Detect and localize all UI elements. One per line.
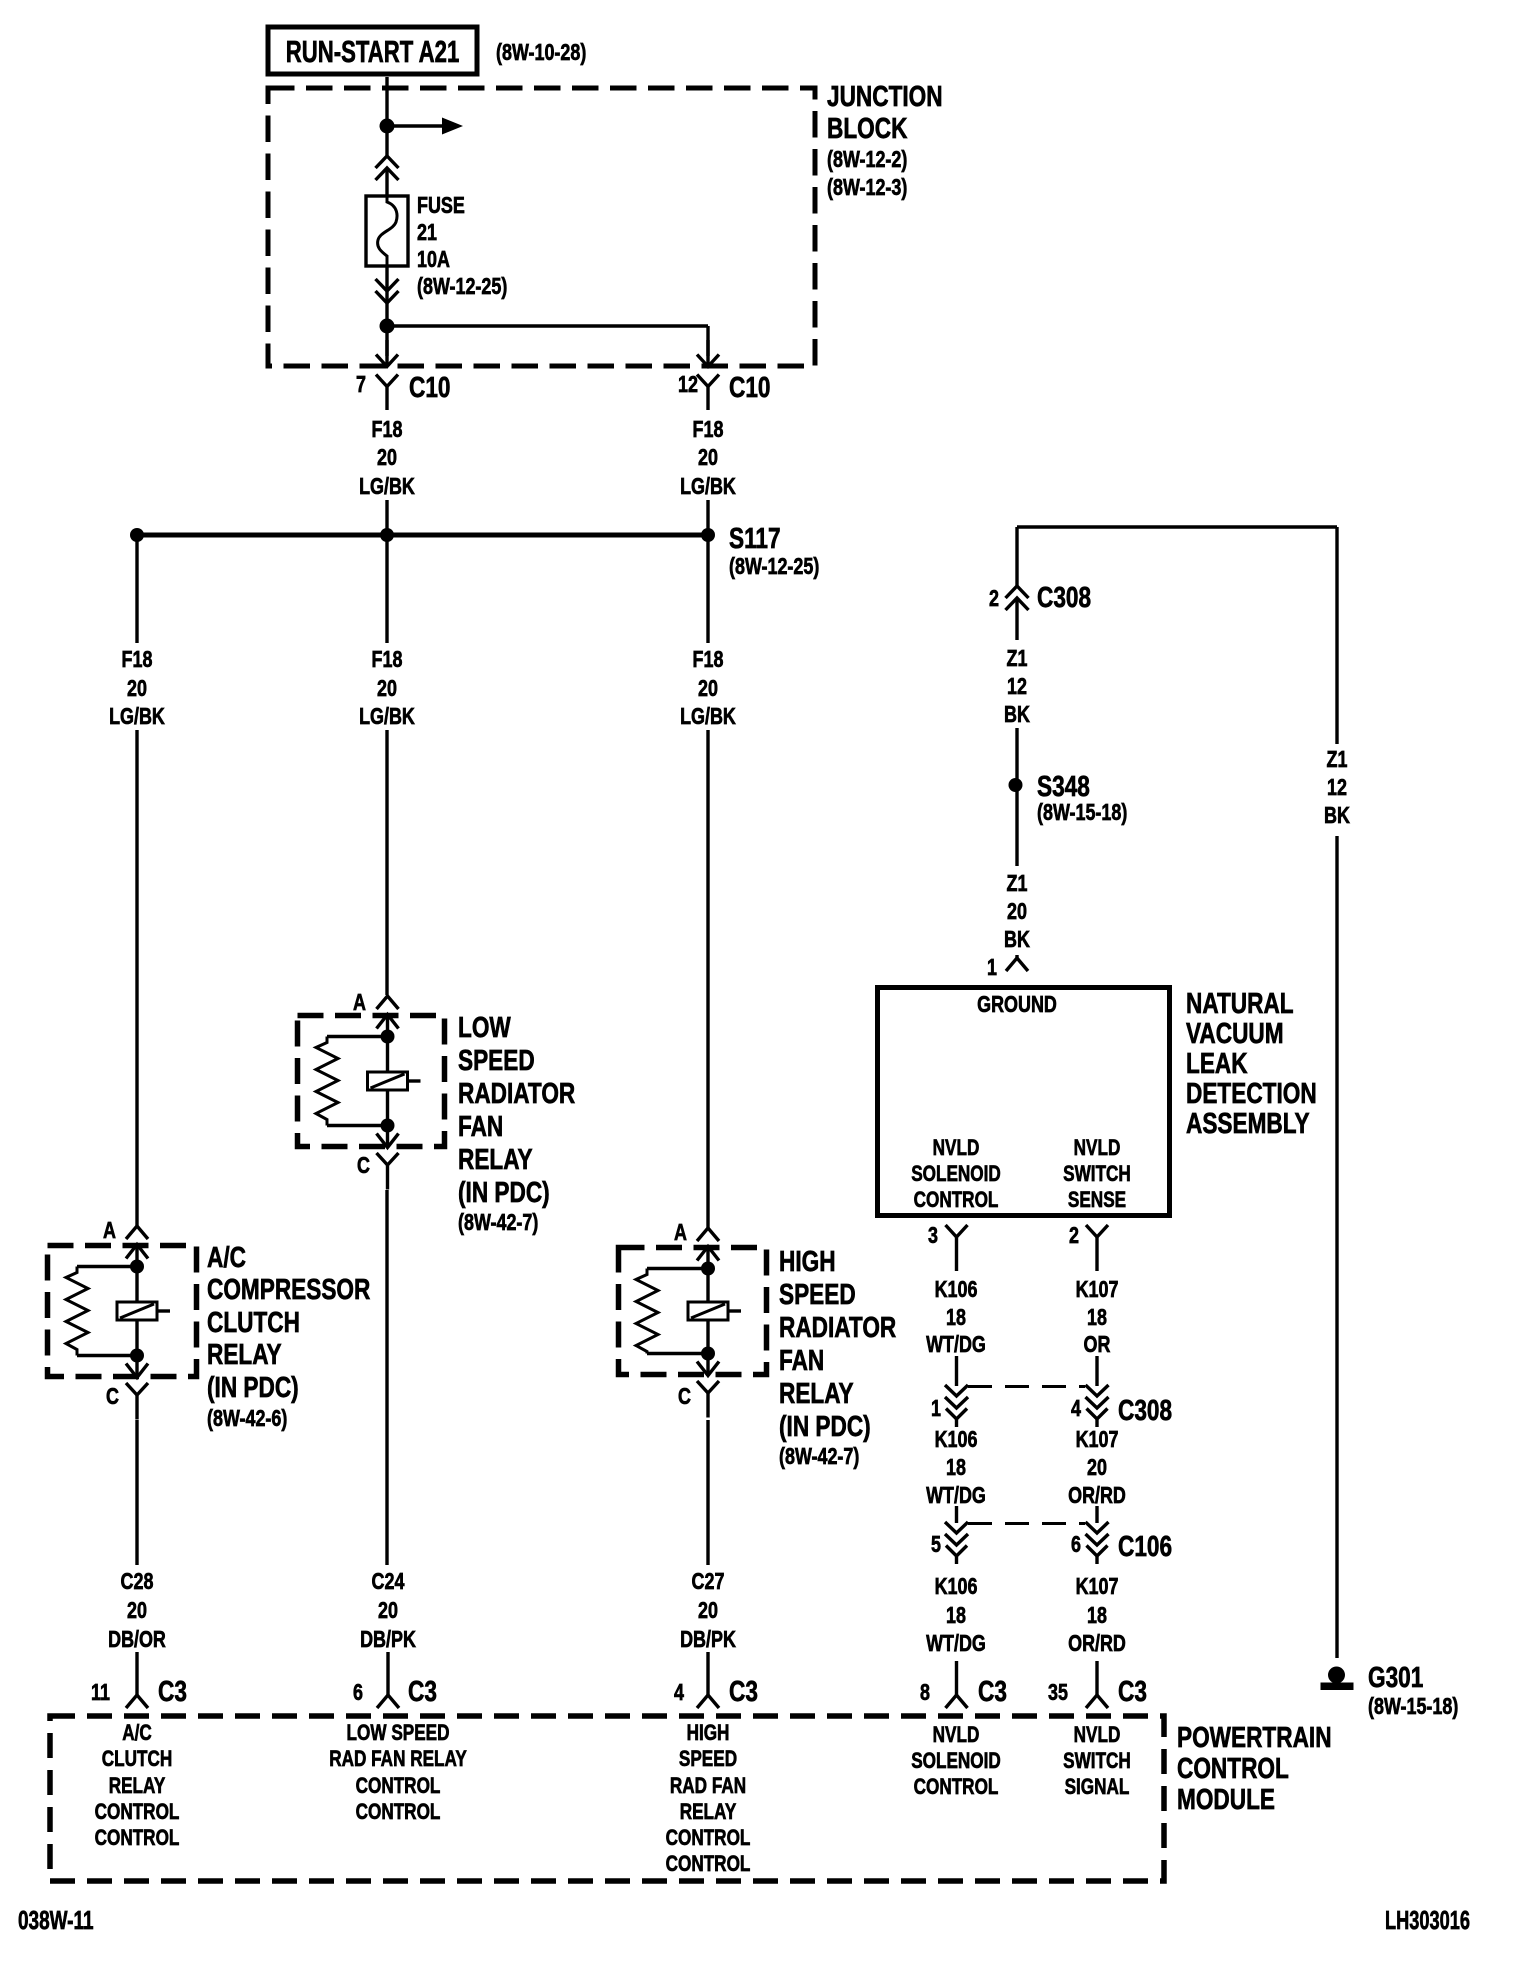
svg-text:CLUTCH: CLUTCH <box>102 1747 173 1772</box>
dashed connector tie line C106 <box>968 1522 1085 1525</box>
wire label K107 18 OR upper <box>1076 1277 1119 1358</box>
svg-text:DB/PK: DB/PK <box>680 1627 736 1653</box>
wire label F18 20 LG/BK column 3 <box>680 647 736 730</box>
svg-text:2: 2 <box>989 586 999 612</box>
svg-text:SPEED: SPEED <box>458 1043 535 1076</box>
svg-text:(IN PDC): (IN PDC) <box>779 1409 871 1442</box>
svg-text:18: 18 <box>946 1305 966 1331</box>
splice reference (8W-12-25) <box>729 554 819 580</box>
svg-text:A: A <box>674 1220 687 1246</box>
svg-text:OR: OR <box>1084 1332 1111 1358</box>
wire pin7 to splice bus <box>385 500 388 535</box>
junction node dot <box>380 119 395 134</box>
svg-text:RELAY: RELAY <box>207 1337 282 1370</box>
svg-text:A: A <box>353 990 366 1016</box>
svg-text:SOLENOID: SOLENOID <box>911 1749 1001 1774</box>
connector C106 pin 5 halves <box>945 1522 968 1564</box>
svg-text:OR/RD: OR/RD <box>1068 1483 1126 1509</box>
connector C3 pin 35 fork <box>1086 1695 1108 1708</box>
svg-text:20: 20 <box>698 445 718 471</box>
wire to pin 7 <box>385 326 388 356</box>
pin number 8 <box>920 1680 930 1706</box>
NVLD ground wire top corner <box>1017 527 1337 586</box>
svg-text:NATURAL: NATURAL <box>1186 986 1294 1019</box>
relay pin C arrowhead (A/C compressor clutch relay) <box>126 1356 148 1379</box>
connector C308 pin 2 chevrons <box>1006 586 1029 640</box>
splice dot middle <box>380 528 394 542</box>
wire C308 to splice S348 <box>1015 728 1018 785</box>
low speed radiator fan relay name <box>458 1010 575 1235</box>
wire C106 to PCM pin 8 <box>955 1661 958 1695</box>
svg-text:1: 1 <box>931 1396 941 1422</box>
pin number 1 <box>931 1396 941 1422</box>
wire right branch to ground G301 <box>1335 527 1338 1658</box>
svg-text:CLUTCH: CLUTCH <box>207 1305 300 1338</box>
relay coil winding (A/C compressor clutch relay) <box>117 1267 170 1356</box>
wire bus to A/C relay upper <box>135 535 138 643</box>
relay coil junction dot bottom (high speed radiator fan relay) <box>701 1347 715 1361</box>
wire into PCM pin 6 <box>386 1652 389 1695</box>
sheet number 038W-11 <box>18 1905 94 1935</box>
wire into PCM pin 4 <box>706 1652 709 1695</box>
svg-text:SOLENOID: SOLENOID <box>911 1162 1001 1187</box>
relay coil junction dot bottom (A/C compressor clutch relay) <box>130 1349 144 1363</box>
svg-text:C28: C28 <box>121 1569 154 1595</box>
svg-text:BK: BK <box>1324 803 1350 829</box>
connector C3 pin 4 fork <box>697 1695 719 1708</box>
svg-text:11: 11 <box>91 1680 110 1706</box>
svg-text:GROUND: GROUND <box>977 992 1057 1018</box>
junction block name label <box>827 79 943 200</box>
ground reference (8W-15-18) <box>1368 1694 1458 1720</box>
relay coil junction dot top (high speed radiator fan relay) <box>701 1262 715 1276</box>
pin number 1 at NVLD <box>987 955 997 981</box>
powertrain control module dashed box <box>50 1716 1164 1881</box>
svg-text:NVLD: NVLD <box>933 1723 980 1748</box>
wire receptacle at relay terminal A (A/C compressor clutch relay) <box>126 1226 148 1239</box>
svg-text:(IN PDC): (IN PDC) <box>458 1175 550 1208</box>
wire C106 to PCM pin 35 <box>1095 1661 1098 1695</box>
svg-text:1: 1 <box>987 955 997 981</box>
relay dashed box (low speed radiator fan relay) <box>298 1016 445 1147</box>
svg-text:BK: BK <box>1004 927 1030 953</box>
connector C3 label pin 4 <box>729 1674 758 1707</box>
svg-text:K107: K107 <box>1076 1574 1119 1600</box>
junction dot below fuse <box>380 319 395 334</box>
wire NVLD pin2 to C308 <box>1095 1356 1098 1386</box>
relay pin A arrowhead (high speed radiator fan relay) <box>697 1247 719 1269</box>
svg-text:20: 20 <box>127 1598 147 1624</box>
terminal letter C of A/C relay <box>106 1384 119 1410</box>
wire label K107 20 OR/RD middle <box>1068 1427 1126 1509</box>
svg-text:RADIATOR: RADIATOR <box>779 1310 896 1343</box>
NVLD internal label NVLD SWITCH SENSE <box>1063 1136 1131 1213</box>
relay coil winding (high speed radiator fan relay) <box>688 1269 741 1354</box>
svg-text:MODULE: MODULE <box>1177 1782 1275 1815</box>
wire receptacle at relay terminal C (low speed radiator fan relay) <box>377 1153 399 1190</box>
svg-text:(8W-42-6): (8W-42-6) <box>207 1406 287 1432</box>
relay resistor (low speed radiator fan relay) <box>316 1037 388 1126</box>
svg-text:F18: F18 <box>372 417 403 443</box>
PCM internal label high speed rad fan relay control <box>666 1721 751 1877</box>
pin number 2 at NVLD switch <box>1069 1223 1079 1249</box>
svg-text:4: 4 <box>674 1680 684 1706</box>
connector C3 pin 8 fork <box>946 1695 968 1708</box>
connector C10 label left <box>409 370 450 403</box>
connector C308 pin 4 halves <box>1086 1385 1109 1427</box>
connector chevrons above fuse <box>376 156 399 196</box>
svg-text:F18: F18 <box>693 417 724 443</box>
svg-text:Z1: Z1 <box>1327 747 1348 773</box>
wire NVLD pin3 to C308 <box>955 1356 958 1386</box>
svg-text:12: 12 <box>1327 775 1347 801</box>
svg-text:FUSE: FUSE <box>417 193 465 219</box>
svg-text:C3: C3 <box>729 1674 758 1707</box>
ground label G301 <box>1368 1660 1423 1693</box>
svg-text:DB/OR: DB/OR <box>108 1627 166 1653</box>
wire label F18 20 LG/BK below pin 7 <box>359 417 415 500</box>
wire label F18 20 LG/BK column 2 <box>359 647 415 730</box>
svg-text:G301: G301 <box>1368 1660 1423 1693</box>
splice reference (8W-15-18) <box>1037 800 1127 826</box>
splice label S117 <box>729 521 781 554</box>
reference label (8W-10-28) <box>496 40 586 66</box>
svg-text:20: 20 <box>1087 1455 1107 1481</box>
svg-text:F18: F18 <box>122 647 153 673</box>
svg-text:POWERTRAIN: POWERTRAIN <box>1177 1720 1332 1753</box>
wire receptacle at relay terminal A (low speed radiator fan relay) <box>377 996 399 1009</box>
svg-text:DETECTION: DETECTION <box>1186 1076 1317 1109</box>
wire pin12 to splice bus <box>706 500 709 535</box>
pin number 4 <box>1071 1396 1081 1422</box>
svg-text:CONTROL: CONTROL <box>666 1852 751 1877</box>
splice label S348 <box>1037 769 1090 802</box>
svg-text:A: A <box>103 1218 116 1244</box>
wire C308 to C106 right <box>1095 1506 1098 1523</box>
fuse value label <box>417 193 507 300</box>
svg-text:S117: S117 <box>729 521 781 554</box>
relay pin A arrowhead (low speed radiator fan relay) <box>377 1015 399 1037</box>
wire A/C relay C to PCM <box>135 1420 138 1565</box>
connector C10 pin 12 receptacle <box>697 375 719 411</box>
wire label Z1 12 BK right branch <box>1324 747 1350 829</box>
svg-text:SWITCH: SWITCH <box>1063 1162 1131 1187</box>
NVLD pin 2 receptacle <box>1086 1225 1108 1271</box>
PCM internal label NVLD switch signal <box>1063 1723 1131 1800</box>
relay coil junction dot top (low speed radiator fan relay) <box>381 1030 395 1044</box>
svg-text:S348: S348 <box>1037 769 1090 802</box>
svg-text:C3: C3 <box>158 1674 187 1707</box>
wire from RUN-START A21 into junction block <box>385 77 388 156</box>
connector C10 pin 7 receptacle <box>376 375 398 411</box>
svg-text:LOW SPEED: LOW SPEED <box>347 1721 450 1746</box>
svg-text:K106: K106 <box>935 1574 978 1600</box>
svg-text:C10: C10 <box>409 370 450 403</box>
arrow feed to other circuits <box>387 118 463 135</box>
svg-text:RELAY: RELAY <box>779 1376 854 1409</box>
svg-text:(8W-12-3): (8W-12-3) <box>827 175 907 201</box>
pin number 11 <box>91 1680 110 1706</box>
svg-text:FAN: FAN <box>779 1343 824 1376</box>
sheet code LH303016 <box>1385 1906 1470 1935</box>
pin number 5 <box>931 1532 941 1558</box>
svg-text:CONTROL: CONTROL <box>356 1774 441 1799</box>
svg-text:NVLD: NVLD <box>933 1136 980 1161</box>
wire bus to high speed relay upper <box>706 535 709 643</box>
svg-text:RADIATOR: RADIATOR <box>458 1076 575 1109</box>
connector C308 pin 1 halves <box>945 1385 968 1427</box>
powertrain control module name <box>1177 1720 1332 1815</box>
relay dashed box (high speed radiator fan relay) <box>619 1248 767 1375</box>
wire to A/C compressor clutch relay <box>135 730 138 1226</box>
svg-text:CONTROL: CONTROL <box>1177 1751 1289 1784</box>
wire label C28 20 DB/OR <box>108 1569 166 1653</box>
svg-text:20: 20 <box>1007 899 1027 925</box>
svg-text:BLOCK: BLOCK <box>827 111 908 144</box>
svg-text:WT/DG: WT/DG <box>926 1483 986 1509</box>
connector C308 label middle <box>1118 1393 1172 1426</box>
svg-text:CONTROL: CONTROL <box>666 1826 751 1851</box>
svg-text:(8W-42-7): (8W-42-7) <box>458 1210 538 1236</box>
PCM internal label NVLD solenoid control <box>911 1723 1001 1800</box>
terminal letter C of low speed relay <box>357 1153 370 1179</box>
pin number 35 <box>1048 1680 1068 1706</box>
relay resistor (high speed radiator fan relay) <box>636 1269 708 1354</box>
wire receptacle at relay terminal A (high speed radiator fan relay) <box>697 1228 719 1241</box>
svg-text:LG/BK: LG/BK <box>359 704 415 730</box>
svg-text:CONTROL: CONTROL <box>914 1188 999 1213</box>
svg-text:FAN: FAN <box>458 1109 503 1142</box>
connector chevrons below fuse <box>376 266 399 303</box>
wire to high speed radiator fan relay <box>706 730 709 1228</box>
svg-text:K106: K106 <box>935 1277 978 1303</box>
svg-text:(8W-42-7): (8W-42-7) <box>779 1444 859 1470</box>
svg-text:20: 20 <box>377 445 397 471</box>
pin number 3 <box>928 1223 938 1249</box>
svg-text:8: 8 <box>920 1680 930 1706</box>
relay coil junction dot top (A/C compressor clutch relay) <box>130 1260 144 1274</box>
svg-text:WT/DG: WT/DG <box>926 1631 986 1657</box>
splice dot S117 <box>701 528 715 542</box>
connector C3 pin 11 fork <box>126 1695 148 1708</box>
NVLD pin 3 receptacle <box>946 1225 968 1271</box>
wire label C24 20 DB/PK <box>360 1569 416 1653</box>
svg-text:C: C <box>357 1153 370 1179</box>
wire low speed relay C to PCM <box>385 1190 388 1565</box>
svg-text:3: 3 <box>928 1223 938 1249</box>
svg-text:LG/BK: LG/BK <box>680 704 736 730</box>
terminal letter A of high speed relay <box>674 1220 687 1246</box>
svg-text:(8W-12-25): (8W-12-25) <box>729 554 819 580</box>
svg-text:20: 20 <box>127 676 147 702</box>
svg-text:C10: C10 <box>729 370 770 403</box>
svg-text:HIGH: HIGH <box>779 1244 836 1277</box>
svg-text:RELAY: RELAY <box>109 1774 166 1799</box>
svg-text:CONTROL: CONTROL <box>914 1775 999 1800</box>
svg-text:C3: C3 <box>1118 1674 1147 1707</box>
relay pin A arrowhead (A/C compressor clutch relay) <box>126 1245 148 1267</box>
svg-text:RAD FAN: RAD FAN <box>670 1774 746 1799</box>
svg-text:(8W-15-18): (8W-15-18) <box>1368 1694 1458 1720</box>
svg-text:K107: K107 <box>1076 1427 1119 1453</box>
wire bus to low speed relay upper <box>385 535 388 643</box>
junction block dashed box <box>268 88 815 366</box>
svg-text:K106: K106 <box>935 1427 978 1453</box>
branch wire to pin 12 <box>387 326 708 356</box>
svg-text:C: C <box>678 1384 691 1410</box>
svg-text:C24: C24 <box>372 1569 405 1595</box>
natural vacuum leak detection assembly box <box>878 988 1170 1216</box>
svg-text:F18: F18 <box>693 647 724 673</box>
svg-text:WT/DG: WT/DG <box>926 1332 986 1358</box>
svg-text:LEAK: LEAK <box>1186 1046 1248 1079</box>
connector C3 label pin 6 <box>408 1674 437 1707</box>
svg-text:20: 20 <box>698 1598 718 1624</box>
connector C3 label pin 35 <box>1118 1674 1147 1707</box>
pin number 12 <box>678 372 698 398</box>
svg-text:RELAY: RELAY <box>458 1142 533 1175</box>
svg-text:K107: K107 <box>1076 1277 1119 1303</box>
svg-text:LG/BK: LG/BK <box>359 474 415 500</box>
pin number 7 <box>356 372 366 398</box>
svg-text:C308: C308 <box>1118 1393 1172 1426</box>
wire label K107 18 OR/RD lower <box>1068 1574 1126 1657</box>
connector C3 label pin 11 <box>158 1674 187 1707</box>
svg-text:Z1: Z1 <box>1007 871 1028 897</box>
connector C106 pin 6 halves <box>1086 1522 1109 1564</box>
terminal letter C of high speed relay <box>678 1384 691 1410</box>
svg-text:6: 6 <box>353 1680 363 1706</box>
svg-text:LOW: LOW <box>458 1010 511 1043</box>
fuse 21 10A symbol <box>366 196 408 266</box>
svg-text:(IN PDC): (IN PDC) <box>207 1370 299 1403</box>
svg-text:18: 18 <box>1087 1305 1107 1331</box>
connector C308 label top <box>1037 580 1091 613</box>
svg-text:4: 4 <box>1071 1396 1081 1422</box>
wire S348 to NVLD ground pin <box>1015 785 1018 866</box>
svg-text:SIGNAL: SIGNAL <box>1065 1775 1130 1800</box>
wire into NVLD pin 1 <box>1006 955 1028 971</box>
wire label K106 18 WT/DG upper <box>926 1277 986 1358</box>
wire receptacle at relay terminal C (A/C compressor clutch relay) <box>126 1383 148 1420</box>
relay dashed box (A/C compressor clutch relay) <box>48 1246 197 1377</box>
wire to low speed radiator fan relay <box>385 730 388 995</box>
A/C compressor clutch relay name <box>207 1240 371 1431</box>
pin number 2 at C308 <box>989 586 999 612</box>
battery feed box RUN-START A21 <box>268 27 477 74</box>
terminal letter A of low speed relay <box>353 990 366 1016</box>
relay pin C arrowhead (low speed radiator fan relay) <box>377 1126 399 1149</box>
high speed radiator fan relay name <box>779 1244 896 1469</box>
PCM internal label A/C clutch relay control <box>95 1721 180 1851</box>
relay coil junction dot bottom (low speed radiator fan relay) <box>381 1119 395 1133</box>
svg-text:C106: C106 <box>1118 1529 1172 1562</box>
pin number 6 <box>1071 1532 1081 1558</box>
svg-text:BK: BK <box>1004 702 1030 728</box>
svg-text:10A: 10A <box>417 247 450 273</box>
wire label K106 18 WT/DG lower <box>926 1574 986 1657</box>
svg-text:DB/PK: DB/PK <box>360 1627 416 1653</box>
svg-text:SWITCH: SWITCH <box>1063 1749 1131 1774</box>
svg-text:VACUUM: VACUUM <box>1186 1016 1284 1049</box>
wire label C27 20 DB/PK <box>680 1569 736 1653</box>
relay pin C arrowhead (high speed radiator fan relay) <box>697 1354 719 1377</box>
wire high speed relay C to PCM <box>706 1420 709 1565</box>
relay resistor (A/C compressor clutch relay) <box>66 1267 137 1356</box>
svg-text:LG/BK: LG/BK <box>109 704 165 730</box>
svg-text:RUN-START A21: RUN-START A21 <box>286 34 460 69</box>
svg-text:A/C: A/C <box>207 1240 246 1273</box>
wire label Z1 12 BK column 4 <box>1004 646 1030 728</box>
svg-text:JUNCTION: JUNCTION <box>827 79 943 112</box>
svg-text:2: 2 <box>1069 1223 1079 1249</box>
svg-text:Z1: Z1 <box>1007 646 1028 672</box>
terminal letter A of A/C relay <box>103 1218 116 1244</box>
svg-text:NVLD: NVLD <box>1074 1136 1121 1161</box>
svg-text:A/C: A/C <box>122 1721 152 1746</box>
svg-text:COMPRESSOR: COMPRESSOR <box>207 1272 371 1305</box>
svg-text:C27: C27 <box>692 1569 725 1595</box>
connector C106 label <box>1118 1529 1172 1562</box>
svg-text:OR/RD: OR/RD <box>1068 1631 1126 1657</box>
wire label F18 20 LG/BK column 1 <box>109 647 165 730</box>
svg-text:SPEED: SPEED <box>779 1277 856 1310</box>
svg-text:18: 18 <box>946 1603 966 1629</box>
wire C308 to C106 left <box>955 1506 958 1523</box>
NVLD internal label GROUND <box>977 992 1057 1018</box>
svg-text:LH303016: LH303016 <box>1385 1906 1470 1935</box>
svg-text:ASSEMBLY: ASSEMBLY <box>1186 1106 1310 1139</box>
PCM internal label low speed rad fan relay control <box>329 1721 467 1825</box>
wire label F18 20 LG/BK below pin 12 <box>680 417 736 500</box>
svg-text:18: 18 <box>1087 1603 1107 1629</box>
svg-text:21: 21 <box>417 220 437 246</box>
svg-text:35: 35 <box>1048 1680 1068 1706</box>
splice S348 dot <box>1009 778 1023 792</box>
splice S117 bus wire <box>137 533 708 538</box>
svg-text:RAD FAN RELAY: RAD FAN RELAY <box>329 1747 467 1772</box>
pin number 6 at PCM <box>353 1680 363 1706</box>
svg-text:7: 7 <box>356 372 366 398</box>
svg-text:20: 20 <box>698 676 718 702</box>
svg-text:SENSE: SENSE <box>1068 1188 1126 1213</box>
NVLD internal label NVLD SOLENOID CONTROL <box>911 1136 1001 1213</box>
svg-text:SPEED: SPEED <box>679 1747 737 1772</box>
connector C3 label pin 8 <box>978 1674 1007 1707</box>
svg-text:18: 18 <box>946 1455 966 1481</box>
svg-text:12: 12 <box>1007 674 1027 700</box>
junction block pin 12 exit arrowhead <box>697 340 719 367</box>
dashed connector tie line C308 <box>968 1385 1085 1388</box>
junction block pin 7 exit arrowhead <box>376 340 398 367</box>
svg-text:5: 5 <box>931 1532 941 1558</box>
svg-text:HIGH: HIGH <box>687 1721 730 1746</box>
wire from fuse to junction dot <box>385 303 388 326</box>
svg-text:20: 20 <box>378 1598 398 1624</box>
svg-text:C: C <box>106 1384 119 1410</box>
ground G301 symbol <box>1321 1667 1353 1690</box>
connector C3 pin 6 fork <box>377 1695 399 1708</box>
svg-text:(8W-15-18): (8W-15-18) <box>1037 800 1127 826</box>
svg-text:12: 12 <box>678 372 698 398</box>
svg-text:F18: F18 <box>372 647 403 673</box>
wire receptacle at relay terminal C (high speed radiator fan relay) <box>697 1381 719 1418</box>
svg-text:20: 20 <box>377 676 397 702</box>
svg-text:CONTROL: CONTROL <box>95 1800 180 1825</box>
svg-text:LG/BK: LG/BK <box>680 474 736 500</box>
svg-text:(8W-12-25): (8W-12-25) <box>417 274 507 300</box>
svg-text:CONTROL: CONTROL <box>356 1800 441 1825</box>
